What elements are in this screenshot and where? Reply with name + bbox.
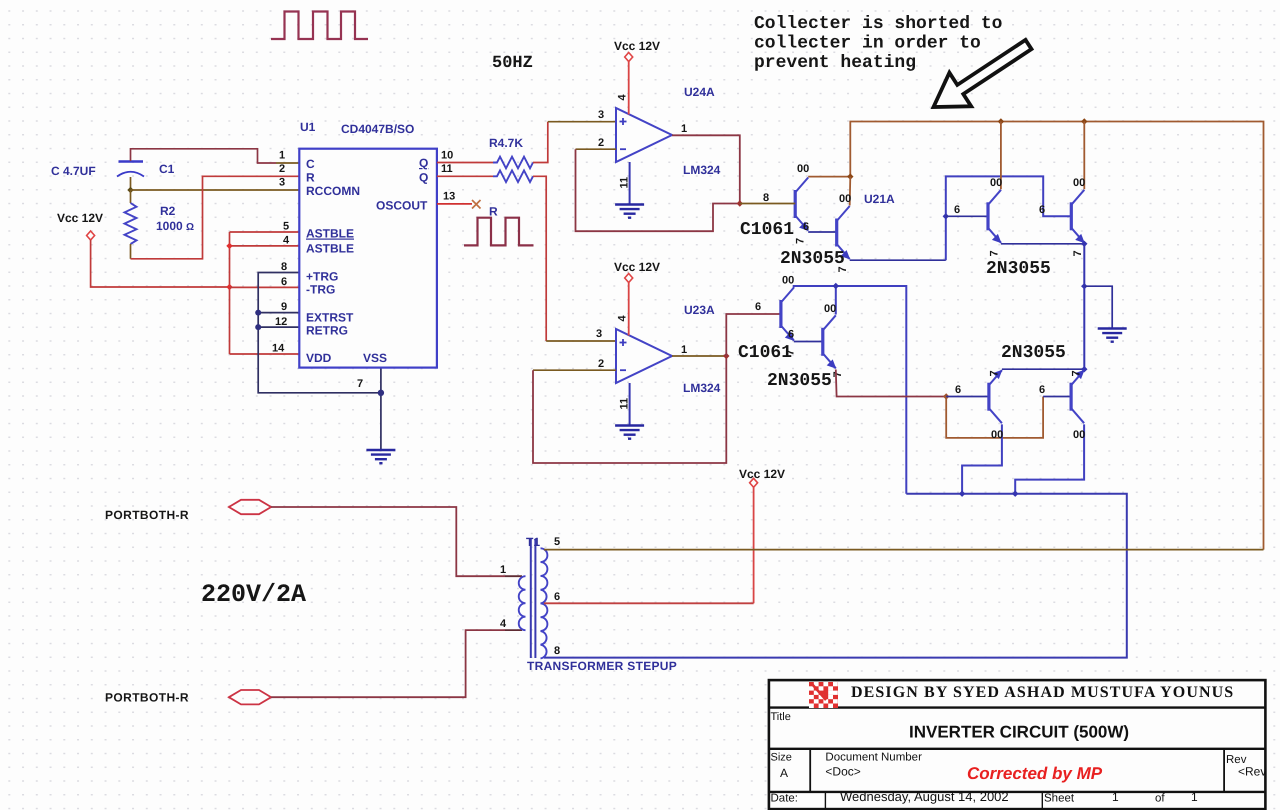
svg-text:6: 6 bbox=[955, 384, 961, 396]
svg-text:3: 3 bbox=[598, 109, 604, 121]
resistor R4.7K upper bbox=[493, 157, 533, 169]
wire Q5 emitter to Q6 base bbox=[794, 341, 823, 343]
port PORTBOTH-R (bottom) bbox=[229, 690, 271, 704]
svg-text:13: 13 bbox=[443, 191, 455, 203]
wire Q6 emitter to lower-right bases bbox=[836, 370, 946, 397]
svg-text:LM324: LM324 bbox=[683, 381, 721, 395]
svg-text:-TRG: -TRG bbox=[306, 283, 335, 297]
wire U23A output bbox=[672, 355, 726, 357]
svg-text:50HZ: 50HZ bbox=[492, 54, 533, 73]
svg-text:7: 7 bbox=[1071, 370, 1083, 376]
svg-text:3: 3 bbox=[279, 177, 285, 189]
svg-text:RETRG: RETRG bbox=[306, 324, 348, 338]
svg-text:7: 7 bbox=[357, 378, 363, 390]
wire Q7 collector down to rail bbox=[962, 424, 1002, 493]
svg-text:U1: U1 bbox=[300, 120, 316, 134]
wire Q7 base bbox=[946, 396, 989, 398]
wire Qbar pin11 bbox=[437, 175, 493, 177]
junction pin12 bbox=[255, 324, 261, 330]
port PORTBOTH-R (top) bbox=[229, 500, 271, 514]
svg-text:+TRG: +TRG bbox=[306, 270, 338, 284]
wire C1 top to U1 pin1 bbox=[131, 149, 277, 163]
svg-text:R: R bbox=[489, 205, 498, 219]
no-connect X bbox=[472, 200, 481, 209]
wire -TRG pin6 bbox=[230, 286, 300, 288]
ground U24A bbox=[615, 205, 644, 218]
svg-text:U23A: U23A bbox=[684, 303, 715, 317]
svg-text:10: 10 bbox=[441, 150, 453, 162]
svg-text:R2: R2 bbox=[160, 204, 176, 218]
wire EXTRST pin9 bbox=[258, 312, 299, 314]
svg-text:Vcc 12V: Vcc 12V bbox=[614, 260, 660, 274]
junction Q8 emitter bbox=[1081, 366, 1087, 372]
ground right bank bbox=[1098, 329, 1127, 342]
svg-text:Vcc 12V: Vcc 12V bbox=[739, 467, 785, 481]
svg-text:00: 00 bbox=[824, 303, 836, 315]
transistor Q8 2N3055 (flipped) bbox=[1071, 370, 1085, 424]
title block title separator bbox=[769, 748, 1266, 750]
svg-text:14: 14 bbox=[272, 343, 285, 355]
U24A minus input mark bbox=[620, 148, 626, 150]
svg-text:4: 4 bbox=[500, 618, 507, 630]
svg-text:VDD: VDD bbox=[306, 351, 332, 365]
divider sheet cell bbox=[1041, 792, 1043, 809]
svg-text:PORTBOTH-R: PORTBOTH-R bbox=[105, 508, 189, 522]
divider rev bbox=[1223, 749, 1225, 792]
wire port1 to transformer pin1 bbox=[271, 507, 505, 576]
svg-text:LM324: LM324 bbox=[683, 163, 721, 177]
resistor R2 bbox=[125, 190, 137, 259]
svg-text:00: 00 bbox=[782, 275, 794, 287]
svg-text:ASTBLE: ASTBLE bbox=[306, 242, 354, 256]
svg-text:CD4047B/SO: CD4047B/SO bbox=[341, 122, 414, 136]
svg-text:Sheet: Sheet bbox=[1044, 793, 1075, 805]
svg-text:TRANSFORMER STEPUP: TRANSFORMER STEPUP bbox=[527, 659, 677, 673]
svg-text:C: C bbox=[306, 157, 315, 171]
big arrow bbox=[934, 40, 1032, 107]
junction Q1 collector bbox=[847, 173, 853, 179]
svg-text:R4.7K: R4.7K bbox=[489, 136, 523, 150]
svg-text:Q: Q bbox=[419, 156, 428, 170]
svg-text:8: 8 bbox=[281, 261, 287, 273]
wire Vcc to U24A pin4 bbox=[628, 62, 630, 115]
Q6 collector wire up bbox=[835, 286, 837, 315]
svg-text:Vcc 12V: Vcc 12V bbox=[57, 211, 103, 225]
U1 pin numbers right bbox=[441, 150, 455, 203]
U1 pin numbers left bbox=[272, 150, 290, 355]
U23A pin11 wire bbox=[629, 383, 631, 425]
wire Q2 emitter to right pair bbox=[850, 259, 946, 261]
svg-text:collecter in order to: collecter in order to bbox=[754, 34, 981, 54]
svg-text:1: 1 bbox=[1191, 790, 1198, 804]
svg-text:Title: Title bbox=[771, 711, 791, 723]
svg-text:DESIGN BY SYED ASHAD MUSTUFA Y: DESIGN BY SYED ASHAD MUSTUFA YOUNUS bbox=[851, 684, 1234, 701]
wire RETRG pin12 bbox=[258, 326, 299, 328]
power flag Vcc transformer bbox=[750, 478, 758, 487]
wire Vcc to transformer pin6 bbox=[753, 487, 755, 603]
svg-text:EXTRST: EXTRST bbox=[306, 311, 354, 325]
svg-text:Document Number: Document Number bbox=[825, 752, 922, 764]
Q3 collector wire up bbox=[1000, 122, 1002, 190]
wire U23A output to Q5 base bbox=[726, 314, 781, 356]
junction lower bases node bbox=[943, 393, 949, 399]
node junction C1/R2/RCCOMN bbox=[127, 187, 133, 193]
U23A minus input mark bbox=[620, 369, 626, 371]
transistor Q3 2N3055 bbox=[988, 190, 1002, 244]
wire VSS pin7 down bbox=[380, 368, 382, 450]
junction Q7 rail bbox=[959, 491, 965, 497]
junction Q4 emitter bbox=[1081, 241, 1087, 247]
transformer primary coil bbox=[519, 576, 526, 630]
square-wave symbol R bbox=[464, 218, 534, 246]
wire to ground (right) bbox=[1084, 286, 1112, 328]
svg-text:00: 00 bbox=[797, 163, 809, 175]
svg-text:8: 8 bbox=[554, 645, 560, 657]
svg-text:6: 6 bbox=[954, 204, 960, 216]
junction U24A output node bbox=[737, 200, 743, 206]
wire port2 to transformer pin4 bbox=[271, 630, 505, 697]
svg-text:6: 6 bbox=[755, 301, 761, 313]
svg-text:2: 2 bbox=[279, 163, 285, 175]
power flag Vcc U23A bbox=[625, 274, 633, 283]
wire Q pin10 bbox=[437, 162, 493, 164]
svg-text:2N3055: 2N3055 bbox=[986, 259, 1051, 279]
svg-text:1: 1 bbox=[1112, 790, 1119, 804]
transistor Q1 C1061 bbox=[795, 178, 809, 232]
title block outer frame bbox=[769, 680, 1266, 809]
IC U1 CD4047B/SO body bbox=[299, 149, 437, 368]
transistor Q5 C1061 bbox=[781, 288, 795, 342]
svg-text:2N3055: 2N3055 bbox=[1001, 343, 1066, 363]
svg-text:2: 2 bbox=[598, 137, 604, 149]
divider size/doc bbox=[809, 749, 811, 792]
wire base link brown U bbox=[946, 397, 1043, 438]
svg-text:1: 1 bbox=[279, 150, 285, 162]
wire U1 left vertical bus pins 5-14 bbox=[229, 232, 231, 354]
svg-text:12: 12 bbox=[275, 316, 287, 328]
svg-text:00: 00 bbox=[839, 193, 851, 205]
svg-text:R: R bbox=[306, 171, 315, 185]
junction rail x1084 bbox=[1081, 118, 1087, 124]
svg-text:6: 6 bbox=[1039, 204, 1045, 216]
svg-text:4: 4 bbox=[617, 315, 629, 322]
title block date separator bbox=[769, 791, 1266, 793]
svg-text:VSS: VSS bbox=[363, 351, 387, 365]
svg-text:C1061: C1061 bbox=[740, 220, 794, 240]
wire Vcc to U23A pin4 bbox=[628, 283, 630, 336]
svg-text:1: 1 bbox=[500, 564, 506, 576]
svg-text:00: 00 bbox=[990, 177, 1002, 189]
svg-text:6: 6 bbox=[554, 591, 560, 603]
wire Q3 base bbox=[946, 215, 988, 217]
junction rail x1000 bbox=[998, 118, 1004, 124]
svg-text:7: 7 bbox=[989, 370, 1001, 376]
junction Q3 base tee bbox=[943, 213, 949, 219]
wire upper emitters down to lower pair bbox=[1083, 244, 1085, 369]
svg-text:2N3055: 2N3055 bbox=[767, 371, 832, 391]
svg-text:11: 11 bbox=[619, 177, 631, 189]
junction U23A output node bbox=[723, 353, 729, 359]
ground U23A bbox=[615, 426, 644, 439]
svg-text:7: 7 bbox=[989, 250, 1001, 256]
bottom rail to transformer pin8 bbox=[544, 494, 1127, 658]
svg-text:C1: C1 bbox=[159, 162, 175, 176]
svg-text:A: A bbox=[780, 766, 788, 780]
svg-text:11: 11 bbox=[441, 163, 453, 175]
svg-text:00: 00 bbox=[1073, 429, 1085, 441]
wire U24A pin2 stub bbox=[576, 148, 617, 150]
svg-text:<Doc>: <Doc> bbox=[825, 765, 860, 779]
wire VDD pin14 bbox=[230, 353, 300, 355]
svg-text:5: 5 bbox=[554, 536, 560, 548]
svg-text:7: 7 bbox=[837, 266, 849, 272]
title block header separator bbox=[769, 706, 1266, 708]
logo checkered bbox=[809, 682, 838, 708]
svg-text:2: 2 bbox=[598, 358, 604, 370]
transistor Q2 2N3055 bbox=[837, 206, 851, 260]
svg-text:of: of bbox=[1155, 793, 1165, 805]
wire +TRG pin8 bbox=[258, 273, 381, 393]
ground U1 bbox=[366, 450, 395, 463]
square-wave symbol 50Hz bbox=[271, 12, 368, 40]
svg-text:00: 00 bbox=[991, 429, 1003, 441]
U23A plus input mark bbox=[620, 339, 627, 346]
Q1 collector wire to rail bbox=[808, 176, 850, 178]
svg-text:220V/2A: 220V/2A bbox=[201, 580, 306, 609]
wire Q8 collector down to rail bbox=[1015, 424, 1084, 493]
U24A pin11 wire bbox=[629, 162, 631, 204]
U24A plus input mark bbox=[620, 118, 627, 125]
wire ASTBLE pin4 bbox=[230, 245, 300, 247]
svg-text:ASTBLE: ASTBLE bbox=[306, 227, 354, 241]
svg-text:Vcc 12V: Vcc 12V bbox=[614, 39, 660, 53]
wire RCCOMN pin3 bbox=[131, 189, 300, 191]
Q4 collector wire up bbox=[1083, 122, 1085, 190]
svg-text:5: 5 bbox=[283, 221, 289, 233]
svg-text:1000 Ω: 1000 Ω bbox=[156, 219, 194, 233]
junction pin9 bbox=[255, 310, 261, 316]
svg-text:00: 00 bbox=[1073, 177, 1085, 189]
svg-text:4: 4 bbox=[283, 235, 290, 247]
svg-text:Q: Q bbox=[419, 171, 428, 185]
svg-text:8: 8 bbox=[763, 192, 769, 204]
svg-text:C 4.7UF: C 4.7UF bbox=[51, 164, 96, 178]
top collector rail (brown) bbox=[850, 122, 1263, 550]
wire secondary pin6 bbox=[544, 602, 754, 604]
junction pin4 bbox=[226, 243, 232, 249]
svg-text:7: 7 bbox=[795, 238, 807, 244]
capacitor C1 bbox=[117, 162, 144, 177]
wire U23A pin2 stub bbox=[533, 369, 616, 371]
transformer T1 core bbox=[531, 539, 536, 658]
transistor Q4 2N3055 bbox=[1071, 190, 1085, 244]
junction Q8 rail bbox=[1012, 491, 1018, 497]
svg-text:Wednesday, August 14, 2002: Wednesday, August 14, 2002 bbox=[840, 789, 1009, 804]
svg-text:6: 6 bbox=[788, 329, 794, 341]
svg-text:6: 6 bbox=[281, 276, 287, 288]
divider date cell bbox=[824, 792, 826, 809]
svg-text:4: 4 bbox=[617, 94, 629, 101]
transistor Q7 2N3055 (flipped) bbox=[989, 370, 1003, 424]
svg-text:11: 11 bbox=[619, 398, 631, 410]
op-amp U24A bbox=[616, 108, 672, 162]
svg-text:Date:: Date: bbox=[771, 793, 799, 805]
svg-text:7: 7 bbox=[832, 371, 844, 377]
svg-text:3: 3 bbox=[596, 328, 602, 340]
junction VSS bbox=[378, 390, 384, 396]
svg-text:1: 1 bbox=[681, 123, 687, 135]
wire Q7 emitter across bbox=[1002, 368, 1084, 370]
wire Q1 emitter to Q2 base bbox=[808, 231, 837, 233]
junction -TRG bbox=[226, 284, 232, 290]
wire Q1 base (from U24A node) bbox=[740, 203, 795, 205]
wire R2 bottom to U1 pin2 R bbox=[131, 176, 300, 258]
wire ASTBLE pin5 bbox=[230, 231, 300, 233]
svg-text:9: 9 bbox=[281, 301, 287, 313]
transistor Q6 2N3055 bbox=[823, 315, 837, 369]
svg-text:7: 7 bbox=[1072, 250, 1084, 256]
Q2 collector wire up bbox=[849, 177, 852, 206]
wire U23A feedback loop bbox=[533, 356, 726, 463]
wire Q3 emitter across bbox=[1001, 243, 1084, 245]
svg-text:U24A: U24A bbox=[684, 85, 715, 99]
wire right-pair base rail bbox=[946, 176, 1072, 260]
svg-text:<Rev: <Rev bbox=[1238, 765, 1266, 779]
svg-text:T1: T1 bbox=[526, 535, 540, 549]
wire OSCOUT pin13 bbox=[437, 203, 472, 205]
transformer secondary coil bbox=[541, 548, 548, 658]
svg-text:1: 1 bbox=[681, 344, 687, 356]
svg-text:2N3055: 2N3055 bbox=[780, 249, 845, 269]
wire U24A feedback loop bbox=[576, 149, 740, 231]
junction ground tee bbox=[1081, 283, 1087, 289]
op-amp U23A bbox=[616, 329, 672, 383]
wire Qbar to U23A pin3 bbox=[533, 176, 546, 341]
svg-text:7: 7 bbox=[785, 349, 797, 355]
svg-text:6: 6 bbox=[1039, 384, 1045, 396]
svg-text:Collecter is shorted to: Collecter is shorted to bbox=[754, 14, 1002, 34]
junction Q6 collector bbox=[833, 283, 839, 289]
svg-text:prevent heating: prevent heating bbox=[754, 53, 916, 73]
wire secondary pin5 bbox=[544, 549, 1264, 551]
lower bank collector rail (blue) bbox=[794, 286, 907, 494]
wire Vcc to -TRG bbox=[91, 240, 229, 287]
svg-text:Corrected by MP: Corrected by MP bbox=[967, 764, 1103, 783]
svg-text:PORTBOTH-R: PORTBOTH-R bbox=[105, 691, 189, 705]
svg-text:INVERTER CIRCUIT (500W): INVERTER CIRCUIT (500W) bbox=[909, 723, 1129, 742]
power flag Vcc U24A bbox=[625, 53, 633, 62]
wire R4.7K to U24A pin3 bbox=[533, 122, 548, 163]
svg-text:OSCOUT: OSCOUT bbox=[376, 199, 428, 213]
svg-text:RCCOMN: RCCOMN bbox=[306, 184, 360, 198]
svg-text:U21A: U21A bbox=[864, 192, 895, 206]
wire C1 bottom to node bbox=[130, 177, 132, 190]
wire Q8 base bbox=[1043, 396, 1071, 398]
power flag Vcc bbox=[87, 231, 95, 240]
resistor R4.7K lower bbox=[493, 171, 533, 183]
svg-text:Size: Size bbox=[771, 752, 792, 764]
wire U24A output bbox=[672, 135, 740, 203]
